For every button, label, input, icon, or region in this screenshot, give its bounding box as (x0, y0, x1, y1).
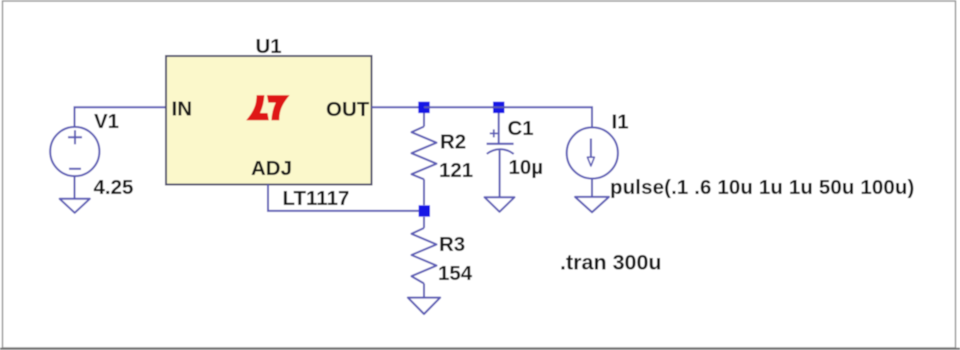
junction node at R2 top (418, 102, 429, 113)
resistor R2 (412, 113, 437, 205)
wire node to C1 node (424, 106, 499, 108)
resistor R3 (412, 217, 437, 298)
C1 plus polarity mark (490, 129, 498, 137)
ground below R3 (408, 298, 440, 314)
ground below C1 (485, 197, 515, 212)
wire V1 top to IN pin (75, 107, 167, 127)
wire I1 bottom to ground (591, 179, 593, 197)
wire C1 node to I1 (499, 107, 592, 127)
V1 plus sign (68, 130, 82, 144)
svg-text:ADJ: ADJ (251, 157, 292, 180)
svg-text:I1: I1 (612, 111, 629, 134)
current source I1 circle (567, 127, 618, 178)
svg-text:R3: R3 (439, 233, 465, 256)
LT logo T glyph (267, 95, 290, 120)
voltage source V1 circle (50, 127, 99, 176)
svg-text:pulse(.1 .6 10u 1u 1u 50u 100u: pulse(.1 .6 10u 1u 1u 50u 100u) (610, 176, 915, 199)
svg-text:R2: R2 (440, 131, 466, 154)
svg-text:4.25: 4.25 (94, 176, 134, 199)
svg-text:10µ: 10µ (509, 156, 544, 179)
svg-text:OUT: OUT (326, 98, 370, 121)
V1 minus sign (69, 168, 81, 170)
junction node at ADJ/R3 (419, 205, 430, 216)
regulator U1 body (166, 56, 372, 185)
svg-text:U1: U1 (256, 35, 282, 58)
svg-text:154: 154 (438, 262, 473, 285)
svg-text:121: 121 (439, 159, 473, 182)
I1 arrow (587, 139, 594, 167)
wire V1 bottom to ground (74, 176, 76, 199)
capacitor C1 (487, 113, 514, 197)
ground below I1 (575, 197, 609, 212)
wire OUT pin to node (372, 106, 425, 108)
ground below V1 (60, 199, 90, 213)
svg-text:IN: IN (172, 98, 193, 121)
svg-text:V1: V1 (94, 110, 119, 133)
svg-text:.tran 300u: .tran 300u (560, 251, 662, 275)
svg-text:C1: C1 (508, 117, 534, 140)
svg-text:LT1117: LT1117 (283, 187, 350, 210)
wire ADJ pin to node (268, 185, 419, 211)
junction node at C1 top (493, 102, 504, 113)
LT logo L glyph (246, 95, 269, 120)
